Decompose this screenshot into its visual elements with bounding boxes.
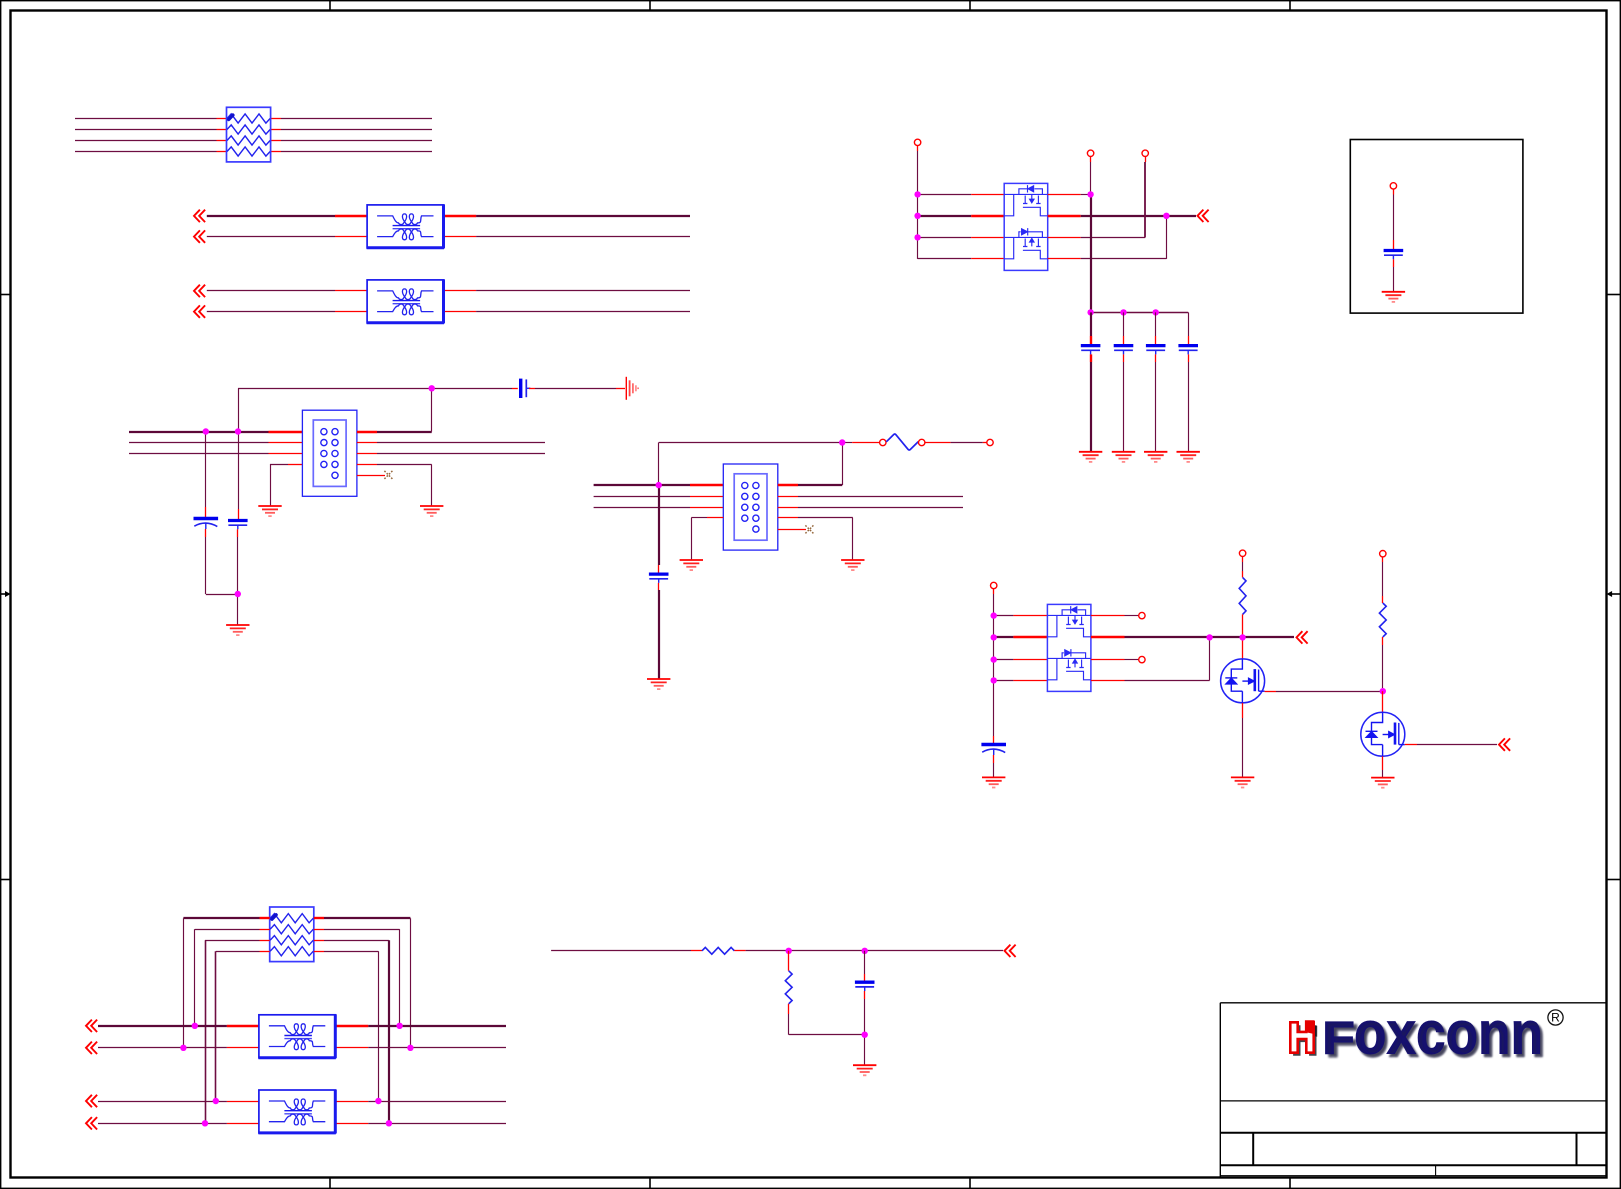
connector J2 bbox=[723, 464, 778, 550]
off-page chevron T4 pin2 bbox=[86, 1117, 97, 1129]
wire J1 left pin4 to ground bbox=[270, 464, 302, 506]
wire T4 pin2 right bbox=[335, 1123, 506, 1125]
wire R3 to chevron bbox=[734, 950, 1003, 952]
wire T3 pin2 left bbox=[98, 1047, 259, 1049]
MOSFET Q2 bbox=[1361, 712, 1405, 756]
ground (J1 right pin4) bbox=[420, 506, 443, 516]
off-page chevron T3 pin2 bbox=[86, 1042, 97, 1054]
off-page chevron gate net bbox=[1297, 631, 1308, 643]
left centering arrow bbox=[1, 591, 11, 597]
enclosure box (black) bbox=[1350, 140, 1523, 314]
junction bbox=[203, 428, 209, 434]
ground (C8) bbox=[1177, 452, 1200, 462]
junction bbox=[213, 1098, 219, 1104]
wire filter input bbox=[551, 950, 702, 952]
wire U2 right pin4 loop bbox=[1091, 637, 1210, 680]
junction bbox=[235, 428, 241, 434]
wire Q2 gate lead to chevron bbox=[1405, 744, 1497, 746]
junction bbox=[991, 656, 997, 662]
wire T1 pin1 right bbox=[444, 215, 477, 217]
capacitor C9 with leads to ground bbox=[1384, 189, 1404, 292]
title block outline bbox=[1220, 1003, 1606, 1178]
wire bus row2 into J2 bbox=[594, 496, 724, 498]
ground (C10) bbox=[982, 777, 1005, 787]
svg-text:F: F bbox=[1322, 1012, 1355, 1064]
wire J1 right pin4 to ground bbox=[357, 465, 432, 507]
ground (J2 left pin4) bbox=[680, 560, 703, 570]
wire bus row2 into J1 bbox=[129, 442, 302, 444]
capacitor C7 with leads bbox=[1146, 312, 1166, 451]
wire bus row3 into J1 bbox=[129, 453, 302, 455]
wire T3 pin1 right (thick) bbox=[335, 1025, 506, 1027]
junction bbox=[862, 1032, 868, 1038]
wire bus row1 into J1 (thick) bbox=[129, 431, 302, 433]
wire T1 pin2 right bbox=[444, 236, 477, 238]
off-page chevron Q2 gate net bbox=[1499, 738, 1510, 750]
capacitor C6 with leads bbox=[1114, 312, 1134, 451]
resistor R1 bbox=[1239, 577, 1246, 614]
wire fuse feed bbox=[842, 442, 879, 444]
junction bbox=[192, 1023, 198, 1029]
chassis ground (top rail) bbox=[626, 377, 638, 400]
wire U2 left pin2 (thick) bbox=[994, 636, 1048, 638]
junction bbox=[656, 482, 662, 488]
wire U1 left pin4 bbox=[918, 258, 1005, 260]
wire RP2 row3 left loop bbox=[205, 940, 270, 1123]
junction bbox=[991, 612, 997, 618]
junction bbox=[1380, 688, 1386, 694]
junction bbox=[407, 1045, 413, 1051]
connector J1 bbox=[302, 410, 357, 496]
transformer T4 (common-mode choke) bbox=[258, 1090, 335, 1134]
wire P2 riser to capacitor rail (thick) bbox=[1090, 194, 1092, 312]
ground (C4) bbox=[647, 679, 670, 689]
wire T3 pin1 left (thick) bbox=[98, 1025, 259, 1027]
terminal P7 bbox=[1139, 656, 1145, 662]
wire U2 right pin1 to P6 bbox=[1091, 615, 1139, 617]
wire T1 pin1 left bbox=[207, 215, 335, 217]
junction bbox=[786, 948, 792, 954]
wire P8 to resistor R1 bbox=[1242, 557, 1244, 578]
wire J2 left pin4 to ground bbox=[691, 518, 723, 561]
resistor R3 (series) bbox=[702, 947, 734, 954]
wire RP2 row4 left loop bbox=[216, 951, 270, 1101]
ground (C2/C3) bbox=[226, 625, 249, 635]
wire U1 right pin3 to P3 bbox=[1048, 157, 1146, 238]
no-connect X on J2 pin5 bbox=[778, 525, 814, 533]
wire T2 pin1 right bbox=[444, 290, 477, 292]
junction bbox=[375, 1098, 381, 1104]
wire RP2 row2 left loop bbox=[195, 929, 270, 1026]
fuse F1 bbox=[886, 434, 918, 450]
junction bbox=[235, 591, 241, 597]
wire U2 left pin4 bbox=[994, 680, 1048, 682]
capacitor C2 (polarized, bulk) with leads bbox=[194, 432, 238, 595]
resistor pack RP2 bbox=[270, 907, 314, 962]
junction bbox=[202, 1120, 208, 1126]
MOSFET Q1 bbox=[1221, 659, 1265, 703]
terminal P6 bbox=[1139, 612, 1145, 618]
ground (Q2) bbox=[1371, 778, 1394, 788]
transformer T1 (common-mode choke) bbox=[367, 204, 444, 248]
wire U1 right pin4 loop bbox=[1048, 216, 1167, 259]
junction bbox=[991, 634, 997, 640]
wire T1 pin2 left bbox=[207, 236, 335, 238]
wire J1 right pin3 stub bbox=[357, 453, 545, 455]
junction bbox=[1153, 309, 1159, 315]
wire RP2 row2 right loop bbox=[314, 929, 400, 1026]
off-page chevron T4 pin1 bbox=[86, 1095, 97, 1107]
wire RP2 row4 right loop bbox=[314, 951, 379, 1101]
wire J2 right pin3 stub bbox=[778, 507, 963, 509]
wire J1 right pin2 stub bbox=[357, 442, 545, 444]
ground (C6) bbox=[1112, 452, 1135, 462]
wire RP2 row1 right loop (thick) bbox=[314, 918, 411, 1048]
wire P9 to resistor R2 bbox=[1382, 557, 1384, 603]
ground (C5) bbox=[1079, 452, 1102, 462]
wire R1 to Q1 drain bbox=[1242, 614, 1244, 659]
junction bbox=[1239, 634, 1245, 640]
wire capacitor C1 to chassis ground bbox=[529, 388, 625, 390]
wire P5 down-feed bbox=[993, 589, 995, 736]
ground (Q1) bbox=[1231, 777, 1254, 787]
junction bbox=[914, 191, 920, 197]
resistor R4 (shunt) with leads bbox=[785, 951, 864, 1035]
wire RP2 row1 left loop (thick) bbox=[183, 918, 269, 1048]
off-page chevron U1 net bbox=[1198, 210, 1209, 222]
wire Q1 source to ground bbox=[1242, 703, 1244, 778]
wire bus row1 into J2 (thick) bbox=[594, 484, 724, 486]
off-page chevron T3 pin1 bbox=[86, 1020, 97, 1032]
capacitor C4 with leads to ground bbox=[649, 485, 669, 679]
svg-text:R: R bbox=[1551, 1011, 1560, 1025]
terminal P4 bbox=[1390, 183, 1396, 189]
junction bbox=[386, 1120, 392, 1126]
ground (R4/C11) bbox=[853, 1065, 876, 1075]
ground (J1 left pin4) bbox=[258, 506, 281, 516]
wire J1 right pin1 riser bbox=[357, 388, 432, 432]
junction bbox=[1120, 309, 1126, 315]
wire T2 pin1 left bbox=[207, 290, 335, 292]
right centering arrow bbox=[1607, 591, 1621, 597]
junction bbox=[839, 439, 845, 445]
wire U1 left pin3 bbox=[918, 237, 1005, 239]
wire U1 left pin1 bbox=[918, 194, 1005, 196]
junction bbox=[1087, 191, 1093, 197]
ground (C9) bbox=[1382, 292, 1405, 302]
wire bus into RP1 (4 horizontal nets) bbox=[75, 119, 432, 152]
terminal P3 bbox=[1142, 150, 1148, 156]
terminal P2 bbox=[1087, 150, 1093, 156]
terminal P1 bbox=[914, 139, 920, 145]
junction bbox=[1206, 634, 1212, 640]
capacitor C5 with leads bbox=[1081, 312, 1101, 451]
terminal P5 bbox=[991, 582, 997, 588]
wire J2 right pin4 to ground bbox=[778, 518, 853, 561]
terminal P9 bbox=[1380, 551, 1386, 557]
wire capacitor rail bbox=[1091, 312, 1189, 314]
wire T4 pin1 right bbox=[335, 1101, 506, 1103]
wire U2 right pin2 (thick) to chevron bbox=[1091, 636, 1294, 638]
capacitor C1 (series, polarized) bbox=[521, 379, 531, 398]
wire bus row3 into J2 bbox=[594, 507, 724, 509]
junction bbox=[396, 1023, 402, 1029]
terminal (J2 top net) bbox=[987, 439, 993, 445]
wire P1 down-feed bbox=[917, 146, 919, 259]
terminal P8 bbox=[1239, 550, 1245, 556]
capacitor C10 (polarized) with ground bbox=[981, 736, 1006, 777]
junction bbox=[862, 948, 868, 954]
transformer T3 (common-mode choke) bbox=[258, 1014, 335, 1058]
dual MOSFET U2 bbox=[1047, 604, 1091, 691]
junction bbox=[429, 385, 435, 391]
ground (J2 right pin4) bbox=[841, 560, 864, 570]
wire U1 left pin2 (thick) bbox=[918, 215, 1005, 217]
junction bbox=[1087, 309, 1093, 315]
off-page chevron T1 pin2 bbox=[194, 230, 205, 242]
wire U1 right pin2 (thick) to chevron bbox=[1048, 215, 1196, 217]
off-page chevron filter output bbox=[1005, 945, 1016, 957]
wire Q1 gate lead to Q2 drain node bbox=[1265, 691, 1383, 693]
wire J2 top net riser and rail bbox=[659, 443, 843, 486]
wire J1 top net (row1 riser and top rail) bbox=[238, 388, 432, 431]
wire J2 right pin2 stub bbox=[778, 496, 963, 498]
wire top rail to series capacitor bbox=[432, 388, 518, 390]
Foxconn logo H mark bbox=[1290, 1020, 1317, 1055]
junction bbox=[991, 677, 997, 683]
capacitor C8 with leads bbox=[1178, 312, 1198, 451]
wire T4 pin2 left bbox=[98, 1123, 259, 1125]
no-connect X on J1 pin5 bbox=[357, 471, 393, 479]
off-page chevron T1 pin1 bbox=[194, 210, 205, 222]
wire U2 right pin3 to P7 bbox=[1091, 659, 1139, 661]
dual MOSFET U1 bbox=[1004, 183, 1047, 270]
capacitor C3 (decoupling) with leads bbox=[228, 432, 248, 626]
capacitor C11 (shunt) with leads bbox=[855, 951, 875, 1065]
terminal (fuse left) bbox=[880, 439, 886, 445]
wire U2 left pin1 bbox=[994, 615, 1048, 617]
wire U1 right pin1 to P2 riser bbox=[1048, 157, 1091, 195]
wire T2 pin2 left bbox=[207, 311, 335, 313]
wire R2 to Q2 drain bbox=[1382, 637, 1384, 712]
wire U2 left pin3 bbox=[994, 659, 1048, 661]
ground (C7) bbox=[1144, 452, 1167, 462]
wire Q2 source to ground bbox=[1382, 756, 1384, 777]
wire T2 pin2 right bbox=[444, 311, 477, 313]
transformer T2 (common-mode choke) bbox=[367, 279, 444, 323]
svg-text:oxconn: oxconn bbox=[1354, 1000, 1543, 1067]
wire T4 pin1 left bbox=[98, 1101, 259, 1103]
junction bbox=[914, 234, 920, 240]
terminal (fuse right) bbox=[919, 439, 925, 445]
Foxconn logo wordmark bbox=[1322, 1000, 1543, 1067]
junction bbox=[180, 1045, 186, 1051]
junction bbox=[914, 213, 920, 219]
off-page chevron T2 pin1 bbox=[194, 285, 205, 297]
wire fuse to terminal bbox=[925, 442, 987, 444]
wire T3 pin2 right bbox=[335, 1047, 506, 1049]
wire J2 right pin1 riser bbox=[778, 443, 843, 486]
resistor R2 bbox=[1379, 603, 1386, 637]
wire RP2 row3 right loop (thick riser) bbox=[314, 940, 389, 1123]
resistor pack RP1 bbox=[227, 107, 271, 162]
junction bbox=[1163, 213, 1169, 219]
off-page chevron T2 pin2 bbox=[194, 305, 205, 317]
